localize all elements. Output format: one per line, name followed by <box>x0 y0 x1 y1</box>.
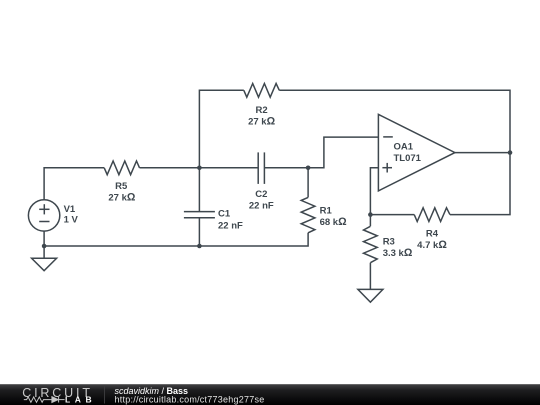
svg-text:OA1: OA1 <box>394 141 414 152</box>
wire node A to C2 <box>199 167 258 169</box>
svg-text:LAB: LAB <box>65 395 96 405</box>
svg-text:R2: R2 <box>256 105 268 116</box>
resistor R5 <box>104 161 139 204</box>
svg-text:TL071: TL071 <box>394 153 422 164</box>
svg-text:http://circuitlab.com/ct773ehg: http://circuitlab.com/ct773ehg277se <box>115 395 265 405</box>
svg-text:22 nF: 22 nF <box>249 200 274 211</box>
svg-text:68 kΩ: 68 kΩ <box>320 216 348 228</box>
svg-text:R4: R4 <box>426 228 439 239</box>
footer separator <box>104 386 106 404</box>
wire node B down to R1 <box>307 168 309 198</box>
resistor R3 <box>364 226 413 262</box>
node C junction dot <box>368 212 373 217</box>
resistor R2 <box>244 84 279 128</box>
resistor R1 <box>301 197 347 232</box>
svg-text:R1: R1 <box>320 205 333 216</box>
wire node A up and to R2 <box>199 90 243 168</box>
capacitor C2 <box>249 152 274 211</box>
wire node C down to R3 <box>369 215 371 227</box>
wire R5 to node A <box>140 167 200 169</box>
node V1 bottom junction dot <box>42 244 47 249</box>
node C1 bottom junction dot <box>197 244 202 249</box>
svg-text:22 nF: 22 nF <box>218 220 243 231</box>
ground below R3 <box>358 289 383 302</box>
wire op-amp non-inverting input to node C <box>370 168 378 215</box>
capacitor C1 <box>184 209 243 232</box>
op-amp OA1 <box>378 114 455 190</box>
svg-text:C1: C1 <box>218 209 231 220</box>
wire right rail down to R4 <box>450 153 510 215</box>
wire V1 top to R5 <box>44 168 104 200</box>
wire node B to op-amp inverting input <box>308 137 378 168</box>
wire R2 to right rail, down to output node <box>279 90 510 152</box>
wire R1 bottom to bottom rail <box>44 233 308 246</box>
ground below V1 <box>32 258 57 270</box>
svg-text:4.7 kΩ: 4.7 kΩ <box>417 239 447 251</box>
svg-text:3.3 kΩ: 3.3 kΩ <box>383 247 413 259</box>
CircuitLab logo resistor and diode <box>24 397 65 403</box>
svg-text:27 kΩ: 27 kΩ <box>108 192 135 204</box>
svg-text:C2: C2 <box>255 189 267 200</box>
wire C1 bottom to bottom rail <box>198 218 200 246</box>
svg-text:R3: R3 <box>383 236 395 247</box>
node A junction dot <box>197 166 202 171</box>
wire node A down to C1 <box>198 168 200 212</box>
wire C2 to node B <box>264 167 308 169</box>
svg-text:R5: R5 <box>115 181 128 192</box>
resistor R4 <box>414 208 450 251</box>
wire R3 bottom to ground <box>369 263 371 290</box>
wire op-amp output to right rail <box>455 152 510 154</box>
svg-text:27 kΩ: 27 kΩ <box>248 115 276 127</box>
node output junction dot <box>508 150 513 155</box>
svg-text:V1: V1 <box>64 204 76 215</box>
voltage source V1 <box>28 200 78 231</box>
svg-text:1 V: 1 V <box>64 215 79 226</box>
wire V1 bottom to ground <box>43 231 45 258</box>
wire R4 to node C <box>370 214 414 216</box>
footer bar <box>0 384 540 405</box>
node B junction dot <box>306 166 311 171</box>
